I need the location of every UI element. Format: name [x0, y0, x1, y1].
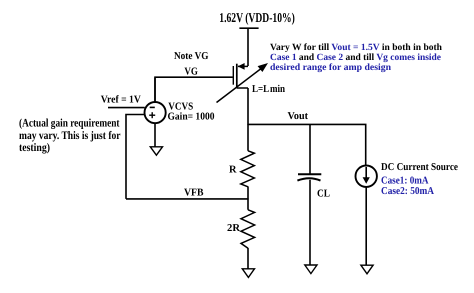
power rail VDD — [239, 27, 258, 29]
svg-text:CL: CL — [317, 189, 330, 200]
VCVS U1 — [145, 102, 166, 123]
svg-text:1.62V (VDD-10%): 1.62V (VDD-10%) — [219, 10, 294, 25]
VCVS minus sign — [150, 106, 155, 108]
wire Vout to CL — [309, 124, 311, 173]
svg-text:desired range for amp design: desired range for amp design — [270, 63, 392, 73]
svg-text:Vref = 1V: Vref = 1V — [101, 95, 141, 106]
transistor source arrow — [238, 63, 245, 70]
svg-text:L=L min: L=L min — [252, 84, 285, 95]
current source I1 — [356, 166, 377, 187]
transistor M1 PMOS — [233, 64, 248, 89]
wire plus input to VFB — [126, 115, 145, 199]
VCVS plus sign — [149, 114, 155, 116]
wire 2R to ground — [247, 248, 249, 269]
svg-text:Case 1 and Case 2 and till Vg: Case 1 and Case 2 and till Vg comes insi… — [270, 53, 441, 63]
wire VCVS output up to VG — [154, 78, 156, 103]
svg-text:(Actual gain requirement: (Actual gain requirement — [19, 118, 120, 130]
ground under CL — [305, 265, 317, 274]
svg-text:DC Current Source: DC Current Source — [381, 162, 458, 173]
variable arrow across transistor — [217, 69, 262, 103]
ground under 2R — [242, 269, 254, 278]
wire VCVS bottom to ground — [154, 123, 156, 147]
svg-text:VG: VG — [184, 67, 198, 78]
wire R to VFB node — [247, 187, 249, 200]
ground under current source — [361, 265, 373, 274]
wire Vref input — [108, 107, 145, 109]
wire VFB — [126, 198, 249, 200]
current source arrow — [365, 167, 367, 178]
resistor R — [241, 151, 255, 187]
svg-text:testing): testing) — [19, 142, 50, 154]
svg-text:Case1: 0mA: Case1: 0mA — [381, 175, 429, 186]
svg-text:R: R — [229, 164, 237, 175]
wire VFB node to 2R — [247, 199, 249, 210]
wire Vout rail — [248, 124, 366, 165]
svg-text:may vary. This is just for: may vary. This is just for — [19, 130, 121, 142]
wire Vout to R — [247, 124, 249, 150]
wire drain to Vout — [247, 88, 249, 125]
wire source to VDD — [247, 28, 249, 66]
svg-text:Vout: Vout — [288, 111, 309, 122]
wire VG gate — [155, 77, 233, 101]
wire current source to ground — [365, 187, 367, 266]
resistor 2R — [241, 210, 255, 249]
wire CL to ground — [309, 180, 311, 265]
svg-text:Gain= 1000: Gain= 1000 — [168, 112, 215, 123]
svg-text:Note VG: Note VG — [174, 51, 209, 62]
svg-text:Vary W for till Vout = 1.5V in: Vary W for till Vout = 1.5V in both in b… — [270, 43, 443, 53]
svg-text:Case2: 50mA: Case2: 50mA — [381, 186, 434, 197]
svg-text:VFB: VFB — [184, 187, 204, 198]
svg-text:2R: 2R — [227, 223, 240, 234]
ground under VCVS — [150, 147, 162, 155]
capacitor CL — [298, 173, 321, 175]
